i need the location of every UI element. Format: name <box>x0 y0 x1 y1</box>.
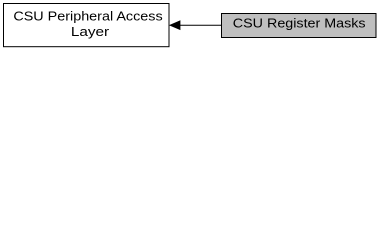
svg-text:Layer: Layer <box>71 24 110 39</box>
svg-text:CSU Register Masks: CSU Register Masks <box>233 16 366 31</box>
svg-text:CSU Peripheral Access: CSU Peripheral Access <box>13 9 163 24</box>
